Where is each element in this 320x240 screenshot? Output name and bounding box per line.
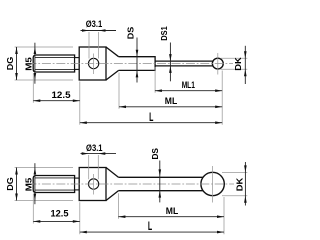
dimension DS: [136, 38, 138, 83]
svg-text:DS: DS: [150, 148, 160, 160]
dimension O3.1: [89, 32, 99, 59]
hole vertical centerline: [93, 174, 95, 195]
stem DS: [119, 57, 156, 71]
svg-text:DS1: DS1: [159, 26, 169, 41]
dimension DK: [221, 58, 248, 69]
extension lines bottom: [33, 193, 224, 234]
dimension 12.5: [33, 100, 80, 102]
ball tip DK: [212, 58, 223, 69]
relief groove: [75, 178, 80, 190]
stem DS1: [155, 61, 213, 66]
dimension DG: [16, 47, 18, 80]
extension lines DG M5 bottom: [15, 168, 73, 201]
ball vertical centerline: [212, 166, 214, 203]
hole O3.1: [88, 58, 98, 68]
svg-text:12.5: 12.5: [52, 90, 71, 100]
svg-text:Ø3.1: Ø3.1: [86, 143, 103, 153]
cone taper bottom: [106, 168, 118, 201]
hole O3.1: [88, 179, 98, 189]
svg-text:L: L: [149, 110, 153, 124]
dimension M5: [34, 43, 36, 84]
dimension DS bottom: [159, 161, 161, 203]
dimension ML: [119, 106, 222, 108]
dimension DG bottom: [16, 168, 18, 201]
thread shank M5: [33, 176, 74, 193]
ball tip DK bottom: [201, 172, 224, 195]
dimension 12.5 bottom: [33, 220, 80, 222]
ball vertical centerline: [217, 53, 219, 75]
svg-text:ML: ML: [166, 206, 179, 216]
svg-text:L: L: [148, 219, 152, 233]
extension lines: [33, 67, 222, 125]
hole vertical centerline: [93, 54, 95, 75]
svg-text:M5: M5: [23, 57, 33, 71]
extension lines DG M5: [15, 47, 73, 80]
relief groove: [75, 58, 80, 70]
stem DS bottom: [118, 177, 206, 190]
dimension L: [80, 122, 222, 124]
svg-text:ML: ML: [165, 96, 178, 106]
svg-text:DK: DK: [235, 177, 245, 191]
svg-text:12.5: 12.5: [51, 209, 69, 219]
dimension DS1: [169, 43, 171, 82]
svg-text:DK: DK: [233, 56, 243, 70]
centerline: [28, 63, 234, 65]
svg-text:DS: DS: [125, 26, 135, 39]
svg-text:M5: M5: [23, 178, 33, 192]
dimension ML1: [155, 90, 222, 92]
dimension DK bottom: [222, 172, 247, 195]
svg-text:Ø3.1: Ø3.1: [86, 19, 103, 29]
dimension O3.1 bottom: [89, 155, 99, 179]
svg-text:DG: DG: [5, 177, 15, 191]
body: [79, 168, 106, 201]
cone taper: [106, 47, 119, 80]
dimension L bottom: [80, 231, 224, 233]
dimension ML bottom: [118, 216, 224, 218]
svg-text:ML1: ML1: [182, 80, 195, 90]
body: [79, 47, 106, 80]
centerline: [28, 183, 235, 185]
dimension M5 bottom: [34, 163, 36, 204]
svg-text:DG: DG: [5, 56, 15, 70]
thread shank M5: [33, 55, 74, 72]
